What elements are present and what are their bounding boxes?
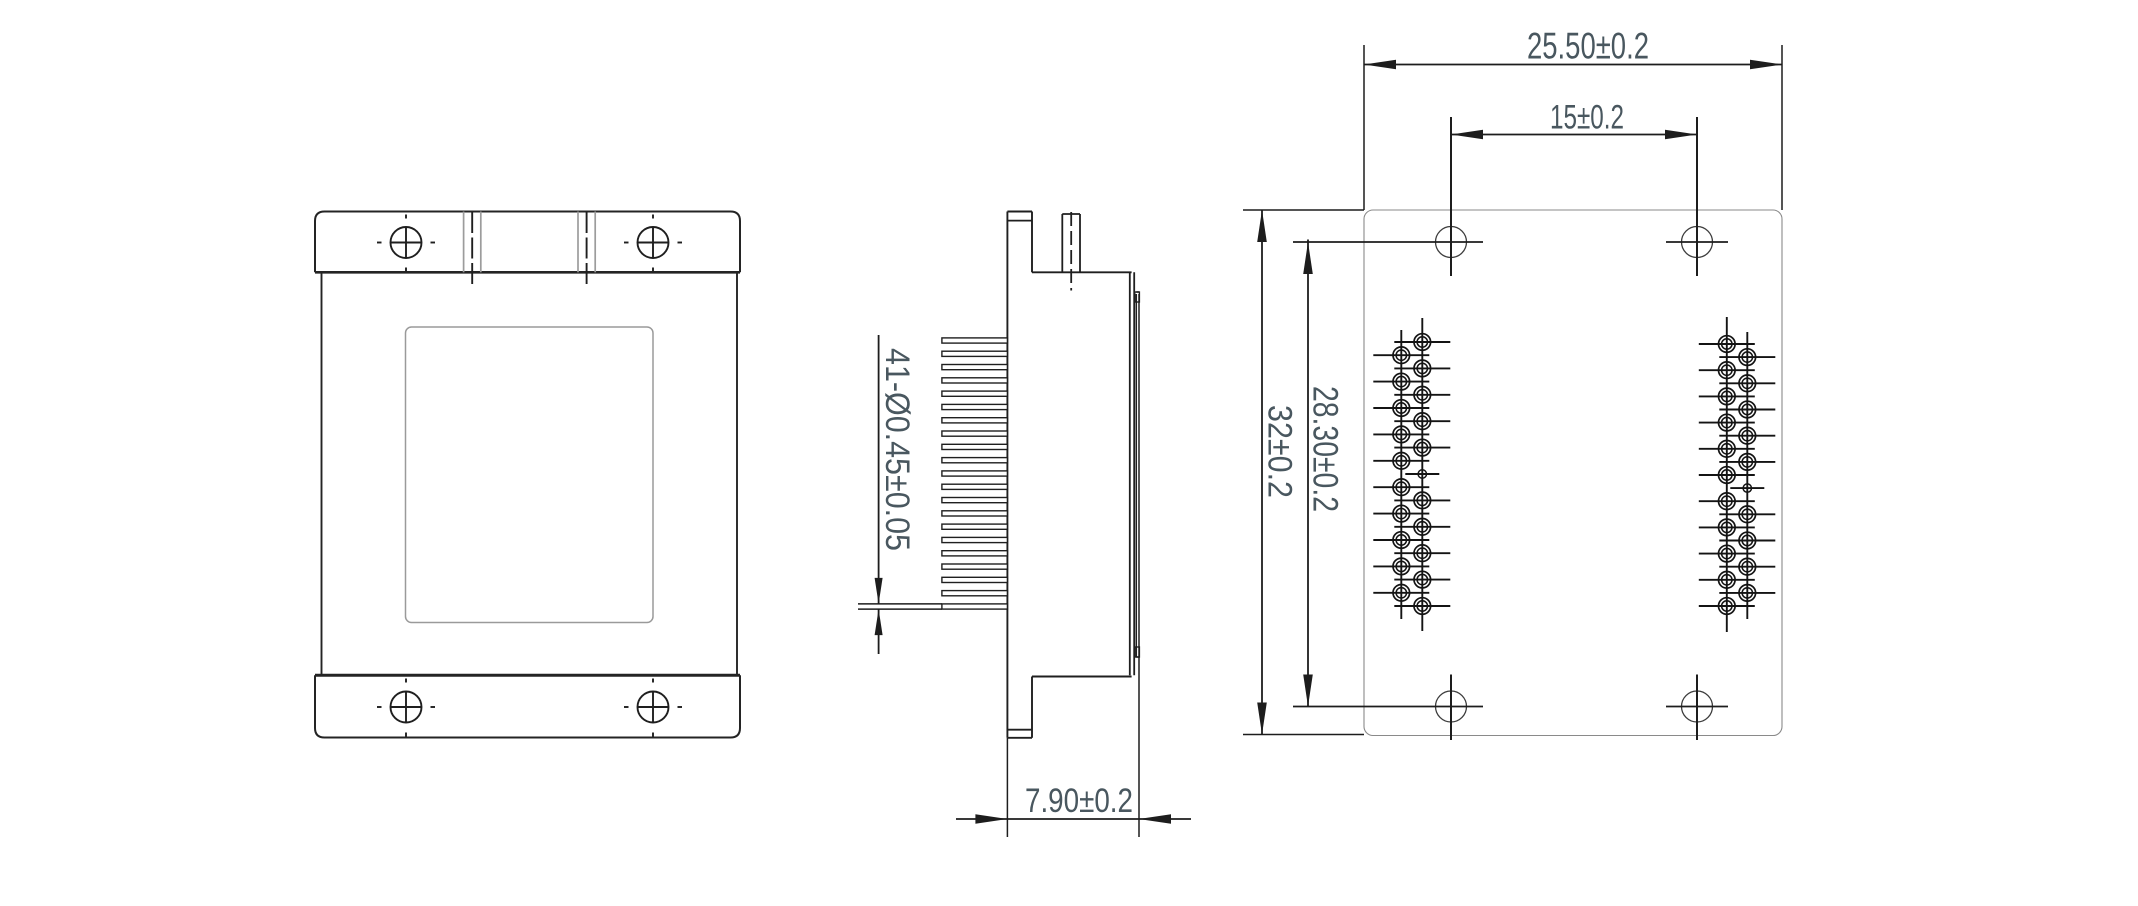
svg-text:15±0.2: 15±0.2 [1550,99,1624,137]
svg-text:28.30±0.2: 28.30±0.2 [1306,386,1345,512]
svg-text:32±0.2: 32±0.2 [1261,405,1299,498]
svg-text:7.90±0.2: 7.90±0.2 [1025,782,1133,820]
svg-text:25.50±0.2: 25.50±0.2 [1527,26,1649,67]
svg-text:41-Ø0.45±0.05: 41-Ø0.45±0.05 [878,348,916,551]
